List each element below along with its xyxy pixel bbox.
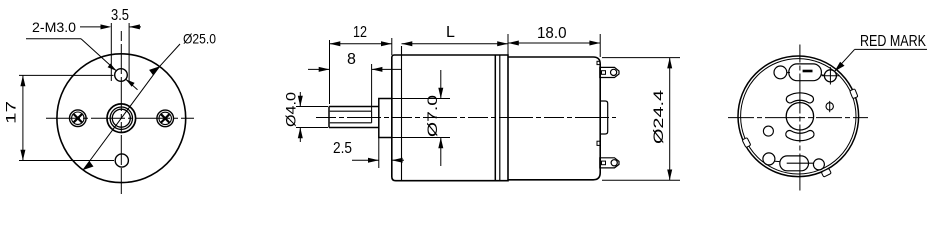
screw left <box>70 110 87 127</box>
can crimp nub bottom <box>597 141 600 145</box>
leader 2-M3.0 underline <box>26 38 81 40</box>
dimension 3.5 left arrow <box>101 24 112 29</box>
dimension 3.5 text <box>111 7 129 24</box>
top slot brush bar <box>803 70 813 73</box>
dimension 24.4 extension bottom <box>602 179 680 181</box>
dimension 8 text <box>347 51 356 68</box>
dimension 18.0 text <box>537 25 567 42</box>
dimension 17 top arrow <box>20 75 25 86</box>
rear top left hole <box>774 66 787 79</box>
rear bottom slot <box>780 156 809 171</box>
gearbox rear ring line 2 <box>499 55 501 181</box>
connector bottom left <box>775 160 780 162</box>
dimension 8 right arrow <box>372 67 383 72</box>
svg-text:Ø25.0: Ø25.0 <box>183 31 216 47</box>
dimension 12 extension line left <box>329 40 331 104</box>
dimension 7 top arrow <box>438 70 443 99</box>
dimension 24.4 bottom arrow <box>667 170 672 181</box>
vent slot above center <box>786 93 813 103</box>
dimension 4 top arrow <box>298 92 303 107</box>
dimension 18 left arrow <box>508 41 519 46</box>
svg-text:8: 8 <box>347 51 356 68</box>
shaft boss ring outer <box>107 104 136 133</box>
terminal tab top <box>600 67 619 77</box>
dimension 17 extension line top <box>19 74 114 76</box>
dimension L left arrow <box>402 41 413 46</box>
dimension diameter 24.4 text <box>650 90 666 144</box>
dimension 18 right arrow <box>589 41 600 46</box>
dimension 25 leader and diameter line <box>83 44 180 170</box>
rear bottom left hole <box>763 153 775 165</box>
dimension 8 line right tail <box>372 68 402 70</box>
dimension 2.5 left arrow <box>352 158 379 163</box>
dimension 2.5 extension line <box>378 138 380 169</box>
dimension 2.5 right arrow <box>392 158 404 163</box>
leader 2-M3.0 horizontal to 3.5 dim <box>80 26 104 28</box>
dimension 17 line <box>22 75 24 160</box>
dimension 12 right arrow <box>381 41 392 46</box>
dimension L extension line right / 18 left <box>507 34 509 55</box>
dimension diameter 4.0 text <box>283 92 299 127</box>
shaft flat lines <box>330 111 372 123</box>
dimension 24.4 extension top <box>602 57 680 59</box>
dimension 3.5 extension line right <box>128 23 130 81</box>
dimension L right arrow <box>497 41 508 46</box>
dimension 24.4 line <box>669 58 671 181</box>
rear center bearing hole <box>786 103 813 130</box>
red mark circle with cross <box>822 67 839 84</box>
gearbox face outer circle <box>57 54 186 183</box>
motor can <box>508 57 600 180</box>
shaft flat end line <box>371 111 373 123</box>
rear horizontal centerline <box>728 117 868 119</box>
small hole left <box>763 126 773 136</box>
gearbox body <box>392 55 508 181</box>
rear vertical centerline <box>799 45 801 191</box>
dimension 17 text <box>4 101 19 124</box>
svg-text:RED MARK: RED MARK <box>860 33 926 50</box>
connector slot to red mark <box>821 74 824 77</box>
dimension L line <box>402 43 509 45</box>
shaft circle inner <box>112 109 130 127</box>
dimension 18 extension line right <box>599 34 601 57</box>
motor rear rim inner circle <box>741 59 856 174</box>
svg-text:2.5: 2.5 <box>333 140 352 157</box>
dimension 7 bottom arrow <box>438 138 443 167</box>
dimension 12 left arrow <box>330 41 341 46</box>
dimension 3.5 extension line left <box>110 23 112 81</box>
dimension 4 extension top <box>296 106 328 108</box>
bottom slot brush line <box>787 162 814 164</box>
mounting hole bottom M3 <box>115 154 128 167</box>
can crimp nub top <box>597 61 600 64</box>
small hole with slot right <box>826 101 833 112</box>
dimension 7 extension bottom <box>382 137 450 139</box>
leader 2-M3.0 diagonal to top hole <box>81 39 116 71</box>
rear top slot <box>789 64 822 81</box>
dimension 12 extension line right <box>391 38 393 55</box>
rim crimp tab left <box>742 138 751 148</box>
dimension L text <box>446 24 455 41</box>
dimension diameter 25.0 text <box>183 31 216 47</box>
svg-text:Ø4.0: Ø4.0 <box>283 92 299 127</box>
dimension 12 line <box>330 43 392 45</box>
svg-text:L: L <box>446 24 455 41</box>
motor rear bearing boss <box>600 101 608 134</box>
label RED MARK <box>860 33 926 50</box>
motor axis centerline <box>316 117 616 119</box>
dimension 17 bottom arrow <box>20 150 25 161</box>
screw right <box>157 110 174 127</box>
dimension 17 extension line bottom <box>19 160 114 162</box>
terminal tab bottom <box>600 158 619 168</box>
vent slot below center <box>786 130 814 140</box>
gearbox rear ring line <box>494 55 496 181</box>
svg-text:Ø24.4: Ø24.4 <box>650 90 666 144</box>
dimension 8 extension line right <box>371 64 373 111</box>
connector top left <box>787 72 790 74</box>
gearbox front plate line <box>401 46 403 181</box>
rear bottom right hole <box>813 159 824 170</box>
svg-text:17: 17 <box>4 101 19 124</box>
horizontal centerline front view <box>46 117 194 119</box>
shaft boss ring middle <box>110 107 132 129</box>
svg-text:2-M3.0: 2-M3.0 <box>32 19 76 35</box>
svg-text:3.5: 3.5 <box>111 7 129 24</box>
dimension diameter 7.0 text <box>424 95 440 137</box>
dimension 7 extension top <box>382 98 450 100</box>
svg-text:18.0: 18.0 <box>537 25 567 42</box>
dimension 8 left arrow <box>319 67 330 72</box>
dimension 2.5 text <box>333 140 352 157</box>
dimension 3.5 right arrow <box>129 24 141 29</box>
dimension 4 bottom arrow <box>298 128 303 143</box>
leader second arrow through hole <box>126 79 138 90</box>
dimension 24.4 top arrow <box>667 58 672 69</box>
rim crimp tab right <box>850 89 858 99</box>
bearing boss <box>379 99 392 138</box>
dimension 8 line left tail <box>308 68 330 70</box>
dimension 18 line <box>508 42 600 44</box>
rim crimp tab bottom <box>821 168 831 177</box>
motor rear outer circle <box>738 56 859 177</box>
svg-text:12: 12 <box>353 24 367 41</box>
svg-text:Ø7.0: Ø7.0 <box>424 95 440 137</box>
label 2-M3.0 <box>32 19 76 35</box>
vertical centerline front view <box>120 31 122 194</box>
mounting hole top M3 <box>115 69 128 82</box>
dimension 4 extension bottom <box>296 127 328 129</box>
red mark leader <box>835 49 927 71</box>
output shaft <box>329 107 379 128</box>
dimension 12 text <box>353 24 367 41</box>
